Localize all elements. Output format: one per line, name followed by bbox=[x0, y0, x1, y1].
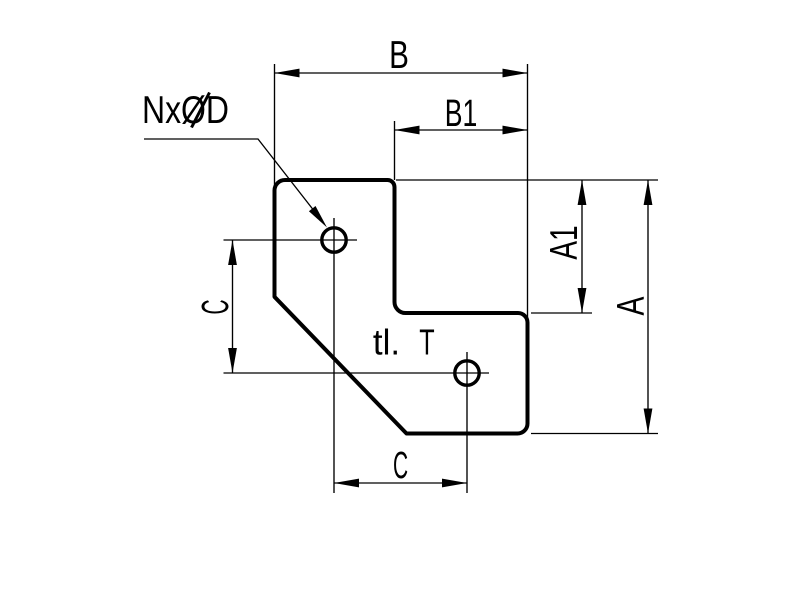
C left bottom arrow bbox=[228, 348, 237, 373]
leader line for NxOD bbox=[144, 139, 322, 221]
A1 bottom extension line bbox=[531, 312, 592, 314]
hole 2 horizontal centerline + C bottom extension bbox=[224, 372, 490, 374]
svg-text:B: B bbox=[389, 34, 409, 77]
B1 left arrow bbox=[395, 126, 420, 135]
B1 left extension line bbox=[394, 121, 396, 180]
hole 1 horizontal centerline + C top extension bbox=[224, 239, 358, 241]
C bottom left arrow bbox=[334, 479, 359, 488]
A1 bottom arrow bbox=[578, 288, 587, 313]
thin lines: centerlines and extension lines bbox=[144, 64, 658, 493]
leader arrowhead bbox=[309, 206, 327, 228]
C left dimension line bbox=[232, 240, 234, 373]
diameter slash extension over the O-slash glyph bbox=[192, 93, 210, 128]
B1 right arrow bbox=[503, 126, 528, 135]
B/B1 right extension line bbox=[527, 64, 529, 320]
B1 dimension line bbox=[395, 129, 528, 131]
B left extension line bbox=[274, 64, 276, 188]
A bottom arrow bbox=[644, 409, 653, 434]
A1 top arrow bbox=[578, 180, 587, 205]
B dimension line bbox=[275, 72, 528, 74]
svg-text:A1: A1 bbox=[543, 225, 587, 259]
C bottom right arrow bbox=[442, 479, 467, 488]
A1 dimension line bbox=[581, 180, 583, 313]
B left arrow bbox=[275, 69, 300, 78]
hole 1 vertical centerline down to bottom C dimension bbox=[333, 218, 335, 493]
svg-text:T: T bbox=[419, 322, 434, 363]
svg-text:tl.: tl. bbox=[373, 322, 400, 363]
arrowheads bbox=[228, 69, 652, 488]
A/A1 top extension line bbox=[396, 179, 658, 181]
hole 1 bbox=[322, 228, 346, 252]
svg-text:A: A bbox=[610, 296, 653, 315]
A bottom extension line bbox=[531, 433, 658, 435]
svg-text:NxØD: NxØD bbox=[142, 88, 229, 132]
hole 2 vertical centerline down to bottom C dimension bbox=[466, 352, 468, 493]
svg-text:C: C bbox=[393, 445, 408, 487]
svg-text:B1: B1 bbox=[445, 91, 478, 134]
B right arrow bbox=[503, 69, 528, 78]
C bottom dimension line bbox=[334, 482, 467, 484]
part outline: L-shaped corner bracket bbox=[275, 180, 528, 434]
A top arrow bbox=[644, 180, 653, 205]
svg-text:C: C bbox=[195, 299, 237, 314]
C left top arrow bbox=[228, 240, 237, 265]
hole 2 bbox=[455, 361, 479, 385]
A dimension line bbox=[647, 180, 649, 434]
